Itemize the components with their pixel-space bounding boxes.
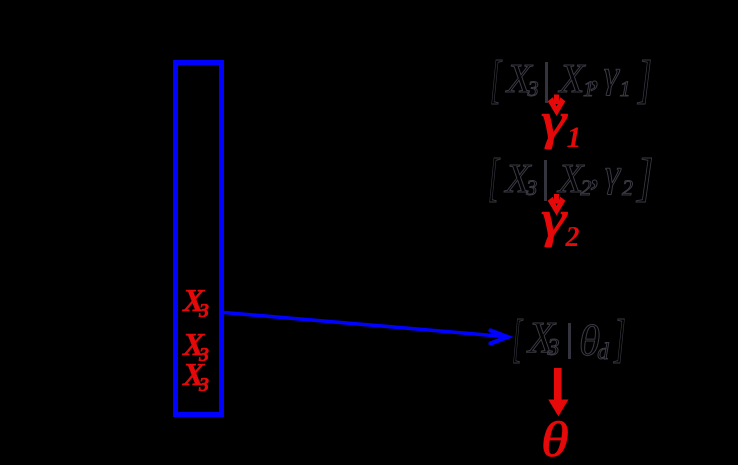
label X3 middle <box>182 327 184 329</box>
label gamma2 <box>0 0 1 1</box>
red short arrow 2 <box>548 194 566 216</box>
red long arrow to theta <box>548 368 568 416</box>
blue arrow from X3 column to [X3|theta_d] <box>224 313 508 344</box>
node [X3 | X1,g1] <box>0 0 1 1</box>
label X3 bottom <box>182 357 184 359</box>
blue column rectangle <box>173 60 224 417</box>
red short arrow 1 <box>548 95 566 117</box>
label X3 top <box>182 283 184 285</box>
node [X3 | X2,g2] <box>0 0 1 1</box>
label gamma1 <box>0 0 1 1</box>
label theta <box>0 0 1 1</box>
node [X3 | theta_d] <box>0 0 1 1</box>
